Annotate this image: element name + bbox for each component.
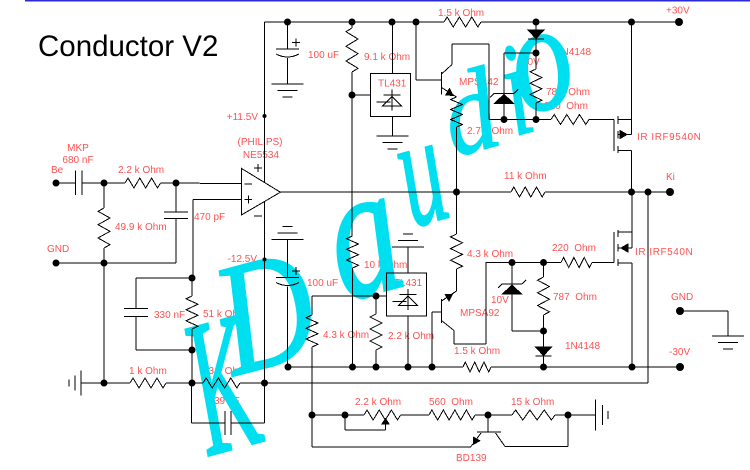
wire op-amp output xyxy=(280,191,456,193)
wire xyxy=(567,415,569,447)
wire top rail left xyxy=(265,21,445,23)
wire xyxy=(457,191,512,193)
wire xyxy=(456,127,458,192)
wire xyxy=(136,349,192,351)
wire xyxy=(287,240,289,278)
node VAS output xyxy=(453,189,460,196)
wire xyxy=(545,191,670,193)
resistor 220 Ohm bottom xyxy=(561,258,592,268)
wire -30V rail right xyxy=(491,366,680,368)
wire xyxy=(503,53,505,93)
wire source to output xyxy=(631,151,633,193)
wire drain to output xyxy=(631,192,633,232)
junction xyxy=(405,364,412,371)
wire to gate xyxy=(592,262,614,264)
wire divider column xyxy=(351,95,353,236)
wire -30V rail left xyxy=(288,366,463,368)
resistor 4.3 k Ohm upper xyxy=(451,234,463,269)
junction xyxy=(501,116,508,123)
wire xyxy=(555,414,568,416)
transistor Q1 MPSA42 xyxy=(441,72,443,95)
top blue separator line xyxy=(25,0,750,2)
junction xyxy=(101,380,108,387)
svg-text:220 Ohm: 220 Ohm xyxy=(552,243,596,254)
resistor 9.1 k Ohm xyxy=(346,28,358,72)
junction xyxy=(349,364,356,371)
wire input shunt column xyxy=(103,263,105,383)
resistor 10 k Ohm xyxy=(347,236,359,268)
resistor 11 k Ohm xyxy=(511,187,545,197)
pin marker -12.5V xyxy=(263,258,267,262)
node 51k/330nF top xyxy=(189,275,196,282)
junction xyxy=(284,19,291,26)
svg-text:470 pF: 470 pF xyxy=(194,212,225,223)
svg-text:2.2 k Ohm: 2.2 k Ohm xyxy=(118,165,164,176)
svg-text:49.9 k Ohm: 49.9 k Ohm xyxy=(115,222,167,233)
svg-text:2.2 k Ohm: 2.2 k Ohm xyxy=(388,331,434,342)
zener diode 10V bottom xyxy=(502,283,522,285)
wire xyxy=(511,293,513,331)
pin marker +11.5V xyxy=(263,114,267,118)
resistor 33 k Ohm xyxy=(203,378,240,388)
wire xyxy=(488,414,512,416)
svg-text:IR IRF9540N: IR IRF9540N xyxy=(637,132,701,143)
resistor 1.5 k Ohm top xyxy=(444,17,481,27)
op-amp V+ rail xyxy=(264,22,266,182)
wire + input xyxy=(193,199,241,201)
resistor 560 Ohm xyxy=(429,410,475,420)
wire xyxy=(104,182,125,184)
wire xyxy=(486,262,561,264)
svg-text:2.2 k Ohm: 2.2 k Ohm xyxy=(355,397,401,408)
junction xyxy=(389,19,396,26)
junction xyxy=(349,19,356,26)
op-amp plus input sign xyxy=(244,199,252,201)
wire xyxy=(568,414,596,416)
capacitor 330 nF xyxy=(124,308,148,310)
resistor 787 Ohm top xyxy=(530,69,542,103)
wire 470pF bottom xyxy=(175,219,177,263)
terminal GND right xyxy=(676,307,684,315)
svg-text:10V: 10V xyxy=(491,295,509,306)
wire emitter rail xyxy=(312,446,471,448)
svg-text:Conductor V2: Conductor V2 xyxy=(38,30,218,63)
MOSFET Q4 IR IRF540N xyxy=(613,232,615,263)
wire xyxy=(351,72,353,95)
junction xyxy=(509,259,516,266)
wire xyxy=(240,382,265,384)
wire xyxy=(135,317,137,351)
potentiometer 2.2 k Ohm xyxy=(364,410,401,420)
node BD139 collector xyxy=(565,412,572,419)
wire GND to node xyxy=(56,262,104,264)
wire gate row xyxy=(489,119,551,121)
node feedback divider xyxy=(189,380,196,387)
wire xyxy=(375,350,377,367)
wire input to C680n xyxy=(56,182,76,184)
svg-text:15 k Ohm: 15 k Ohm xyxy=(511,397,554,408)
resistor 1.5 k Ohm bottom xyxy=(463,362,491,372)
wire xyxy=(352,268,354,367)
transistor Q2 MPSA92 xyxy=(441,299,443,323)
wire xyxy=(456,192,458,234)
wire xyxy=(103,248,105,263)
wire xyxy=(512,330,544,332)
wire xyxy=(104,382,130,384)
svg-text:1.5 k Ohm: 1.5 k Ohm xyxy=(454,346,500,357)
junction xyxy=(540,259,547,266)
resistor 49.9 k Ohm xyxy=(98,208,110,248)
resistor 787 Ohm bottom xyxy=(538,277,550,315)
svg-text:-30V: -30V xyxy=(669,347,690,358)
op-amp V- rail xyxy=(264,202,266,384)
node feedback/V- junction xyxy=(261,380,268,387)
resistor 1 k Ohm xyxy=(130,378,166,388)
watermark KD audio xyxy=(163,0,590,470)
ground right bottom xyxy=(595,400,597,431)
node BD139 base xyxy=(485,412,492,419)
wire bias column lower xyxy=(311,347,313,415)
svg-text:NE5534: NE5534 xyxy=(243,150,280,161)
svg-text:680 nF: 680 nF xyxy=(62,155,93,166)
svg-text:100 uF: 100 uF xyxy=(307,278,338,289)
wire body tie xyxy=(631,232,633,248)
terminal Ki output xyxy=(666,188,674,196)
input terminal Be xyxy=(53,180,60,187)
svg-text:BD139: BD139 xyxy=(456,453,487,464)
svg-text:9.1 k Ohm: 9.1 k Ohm xyxy=(364,52,410,63)
capacitor 100 uF negative rail xyxy=(276,277,299,279)
terminal +30V xyxy=(675,18,683,26)
junction xyxy=(373,364,380,371)
svg-text:787 Ohm: 787 Ohm xyxy=(553,292,597,303)
svg-text:+11.5V: +11.5V xyxy=(227,112,259,123)
ground xyxy=(712,335,744,337)
transistor Q5 BD139 xyxy=(487,415,489,432)
wire xyxy=(161,182,177,184)
wire body tie xyxy=(631,120,633,135)
wire xyxy=(401,414,430,416)
svg-text:GND: GND xyxy=(671,292,693,303)
ground left xyxy=(80,371,82,396)
node TL431 ref xyxy=(349,92,356,99)
wire xyxy=(311,415,313,447)
op-amp V- sign xyxy=(254,215,262,217)
svg-text:IR IRF540N: IR IRF540N xyxy=(635,247,693,258)
MOSFET Q3 IR IRF9540N xyxy=(613,120,615,152)
junction xyxy=(285,364,292,371)
wire source to -30V rail xyxy=(631,263,633,367)
wire xyxy=(166,382,192,384)
wire xyxy=(511,263,513,285)
wire xyxy=(475,414,488,416)
wire xyxy=(416,79,442,81)
wire xyxy=(191,329,193,383)
zener diode 10V top xyxy=(494,92,514,94)
resistor 2.2 k Ohm input xyxy=(125,178,161,188)
junction xyxy=(373,293,380,300)
resistor 4.3 k Ohm lower xyxy=(306,315,318,347)
junction xyxy=(429,364,436,371)
svg-text:Ki: Ki xyxy=(666,172,675,183)
wire drain xyxy=(631,22,633,120)
wire xyxy=(456,269,458,291)
wire xyxy=(136,277,192,279)
wire xyxy=(191,278,193,296)
wire xyxy=(287,287,289,368)
svg-text:GND: GND xyxy=(47,244,69,255)
junction xyxy=(533,116,540,123)
shunt regulator U2 TL431 xyxy=(371,74,411,117)
wire xyxy=(103,183,105,208)
wire xyxy=(535,22,537,30)
svg-text:100 uF: 100 uF xyxy=(308,50,339,61)
wire xyxy=(351,22,353,28)
capacitor 680 nF MKP xyxy=(75,171,77,196)
svg-text:4.3 k Ohm: 4.3 k Ohm xyxy=(467,249,513,260)
wire xyxy=(680,310,728,312)
wire xyxy=(104,262,176,264)
node bias row left xyxy=(309,412,316,419)
wire C680n to node xyxy=(82,182,104,184)
capacitor 100 uF positive rail xyxy=(276,48,299,50)
svg-text:1N4148: 1N4148 xyxy=(565,341,600,352)
wire xyxy=(535,103,537,120)
wire xyxy=(375,296,377,314)
wire feedback horizontal rail xyxy=(265,382,649,384)
wire xyxy=(287,58,289,84)
wire xyxy=(287,22,289,49)
wire feedback vertical xyxy=(647,192,649,383)
ground xyxy=(377,135,409,137)
wire + input down xyxy=(192,200,194,279)
svg-text:MPSA92: MPSA92 xyxy=(460,308,500,319)
wire to TL431 xyxy=(352,94,371,96)
node trimmer wiper xyxy=(342,412,349,419)
node feedback tap xyxy=(645,189,652,196)
node output junction xyxy=(628,189,635,196)
GND terminal left xyxy=(53,260,60,267)
wire base feed xyxy=(415,22,417,80)
ground inverted xyxy=(392,246,424,248)
potentiometer wiper xyxy=(344,415,346,430)
wire TL431 anode xyxy=(392,117,394,137)
wire TL431 cathode xyxy=(407,247,409,273)
node 330nF bottom xyxy=(189,347,196,354)
wire TL431 anode xyxy=(407,316,409,367)
wire to gate xyxy=(589,119,614,121)
junction xyxy=(540,364,547,371)
svg-text:(PHILIPS): (PHILIPS) xyxy=(237,137,282,148)
junction xyxy=(413,19,420,26)
wire 470pF top xyxy=(175,183,177,212)
op-amp U1 NE5534 triangle xyxy=(241,168,280,215)
wire TL431 ref row xyxy=(312,295,387,297)
wire xyxy=(503,103,505,120)
wire xyxy=(312,414,364,416)
wire xyxy=(192,382,203,384)
wire xyxy=(504,52,536,54)
svg-text:1 k Ohm: 1 k Ohm xyxy=(129,366,167,377)
ground xyxy=(272,83,304,85)
wire xyxy=(81,382,104,384)
resistor 15 k Ohm xyxy=(512,410,555,420)
wire xyxy=(727,311,729,336)
resistor 2.2 k Ohm lower xyxy=(370,314,382,350)
wire TL431 cathode to rail xyxy=(392,22,394,74)
svg-text:1.5 k Ohm: 1.5 k Ohm xyxy=(438,8,484,19)
wire xyxy=(535,39,537,53)
svg-text:MKP: MKP xyxy=(67,143,89,154)
svg-text:11 k Ohm: 11 k Ohm xyxy=(504,171,547,182)
resistor 2.7 k Ohm xyxy=(451,97,463,127)
diode 1N4148 top xyxy=(528,30,544,39)
op-amp minus input sign xyxy=(244,183,252,185)
capacitor 470 pF xyxy=(164,211,188,213)
wire xyxy=(543,356,545,367)
node input/R49.9k junction xyxy=(101,180,108,187)
op-amp V+ sign xyxy=(254,167,262,169)
wire xyxy=(135,278,137,309)
wire bias column upper xyxy=(311,296,313,315)
junction xyxy=(540,328,547,335)
ground inverted xyxy=(272,239,304,241)
shunt regulator U3 TL431 xyxy=(387,273,427,316)
node op-amp inverting input xyxy=(173,180,180,187)
diode 1N4148 bottom xyxy=(536,347,552,356)
junction xyxy=(533,50,540,57)
node GND/49.9k/470pF xyxy=(101,260,108,267)
resistor 51 k Ohm xyxy=(186,296,198,329)
wire xyxy=(543,315,545,331)
junction xyxy=(533,19,540,26)
resistor 220 Ohm top xyxy=(551,115,589,125)
junction xyxy=(628,19,635,26)
wire top rail right xyxy=(481,21,679,23)
svg-text:+30V: +30V xyxy=(666,6,690,17)
wire collector xyxy=(505,446,568,448)
capacitor 39 pF xyxy=(191,383,193,423)
svg-text:560 Ohm: 560 Ohm xyxy=(429,397,473,408)
wire xyxy=(543,263,545,278)
wire to op-amp - input xyxy=(176,182,241,185)
terminal -30V xyxy=(676,363,684,371)
junction xyxy=(629,364,636,371)
wire xyxy=(535,53,537,69)
wire xyxy=(543,331,545,347)
svg-text:Be: Be xyxy=(51,165,64,176)
